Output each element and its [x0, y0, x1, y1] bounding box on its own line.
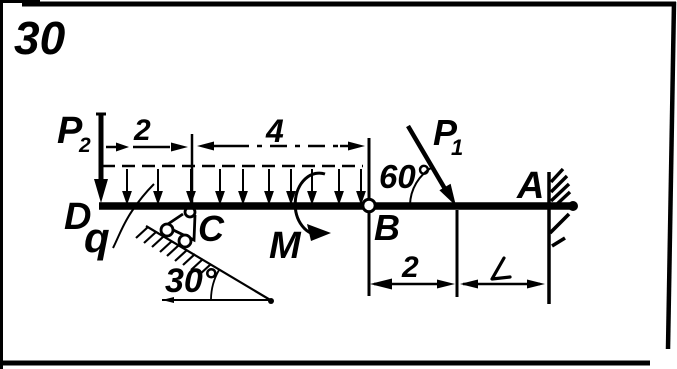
svg-text:2: 2 [133, 114, 151, 147]
extension line at B (below beam) [368, 213, 371, 296]
wall support at A: vertical line [547, 172, 551, 304]
roller support C: pin circle [185, 207, 195, 217]
roller support C: bracket [165, 214, 195, 240]
border frame bottom [3, 361, 650, 366]
svg-text:1: 1 [451, 135, 463, 160]
top dimension line segment 2 [106, 146, 118, 149]
bottom dimension segment 2 [370, 279, 392, 290]
border frame left [0, 0, 3, 369]
force P2 arrow [99, 114, 104, 182]
svg-text:60°: 60° [379, 158, 430, 195]
bottom dimension segment l [460, 280, 478, 289]
roller support C: incline line [146, 226, 272, 301]
30 degree angle: horizontal reference line [162, 299, 269, 301]
extension tick at C [191, 134, 194, 204]
beam DA [99, 202, 572, 210]
60 degree angle arc [410, 167, 433, 205]
30 degree angle: arc [211, 270, 219, 299]
svg-text:30: 30 [14, 12, 66, 64]
label q leader line [113, 184, 154, 248]
border frame right [668, 2, 674, 349]
30 degree angle: vertex dot [268, 298, 274, 304]
moment M arc [295, 173, 325, 235]
wall support at A: hatching below beam [550, 214, 569, 246]
wall support at A: hatching above beam [551, 169, 570, 205]
top dimension line segment 4 [197, 142, 214, 151]
svg-text:B: B [374, 207, 400, 248]
svg-text:D: D [64, 196, 91, 238]
vertical extension at P1 point [456, 210, 459, 297]
svg-text:A: A [516, 165, 544, 207]
svg-text:30°: 30° [165, 262, 217, 300]
border frame top [0, 0, 40, 3]
force P1 arrow [408, 126, 448, 194]
extension line at B (above beam) [368, 138, 371, 198]
svg-text:M: M [269, 225, 302, 267]
roller support C: roller 2 [179, 235, 191, 247]
distributed load q dashed top line [102, 165, 363, 168]
svg-text:2: 2 [401, 251, 419, 284]
beam end dot [568, 201, 578, 211]
roller support C: roller 1 [161, 224, 173, 236]
roller support C: hatching [136, 227, 211, 275]
hinge B circle [363, 199, 375, 211]
label l bottom [492, 258, 510, 279]
distributed load arrows [124, 169, 365, 202]
moment M arrowhead [307, 224, 331, 241]
svg-text:C: C [198, 208, 225, 249]
svg-text:4: 4 [265, 113, 284, 149]
svg-text:2: 2 [78, 134, 91, 157]
